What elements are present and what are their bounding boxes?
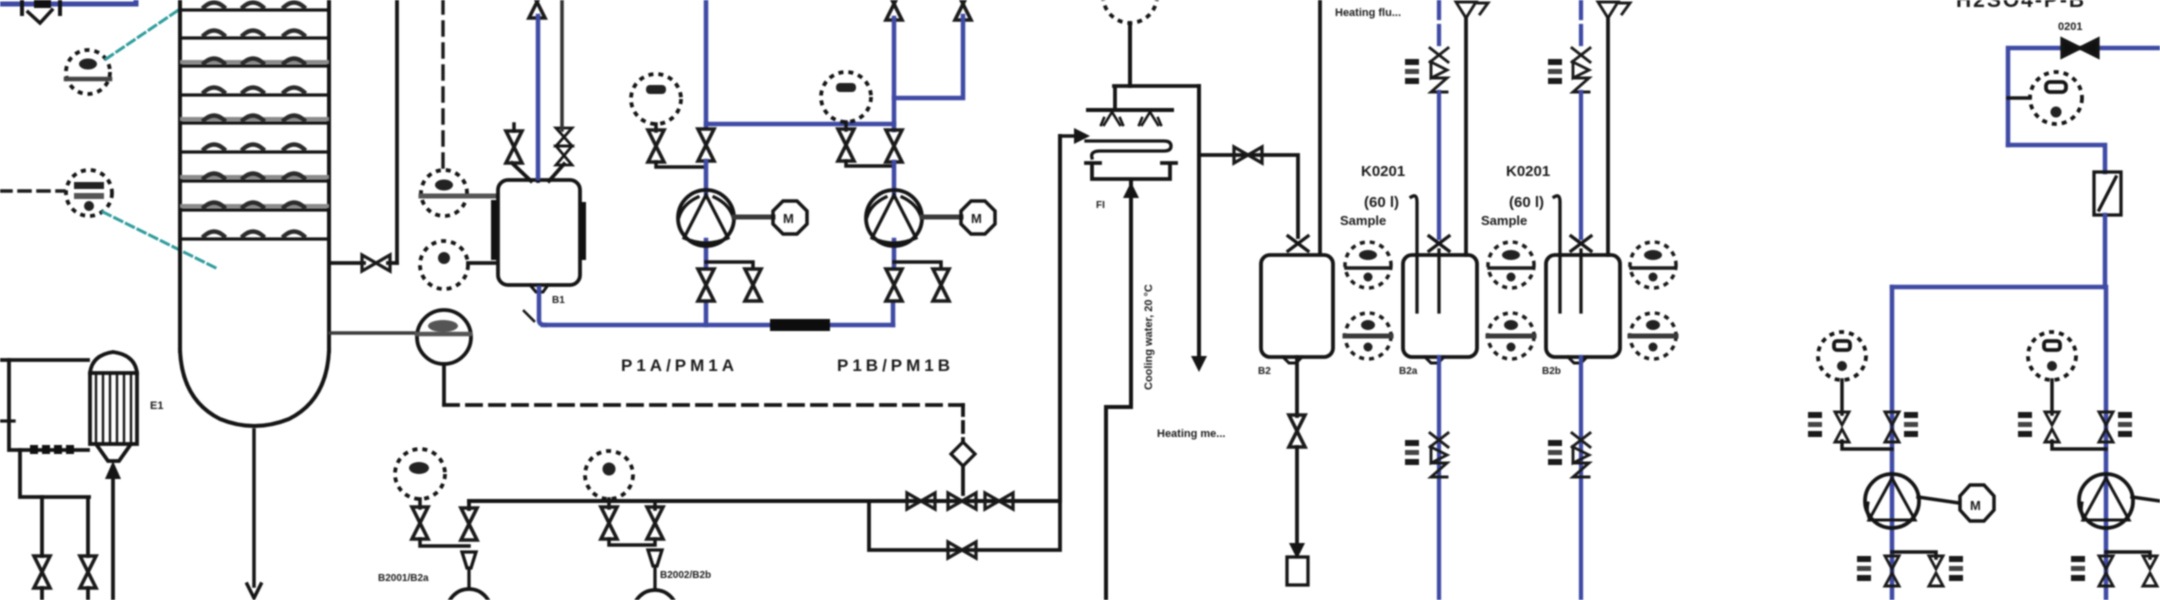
wire blue distribution header right: [1892, 285, 2105, 290]
tick at B1 outlet corner: [524, 311, 534, 321]
pump P1A: [678, 190, 734, 246]
arrow-cross into B2: [1288, 236, 1308, 251]
wire blue into pump P1A: [704, 161, 709, 268]
valve row on main line 3: [985, 493, 1013, 509]
valve under PI-5: [648, 130, 664, 162]
wire second drop stub: [653, 501, 657, 509]
agitator gauge A2: [1488, 242, 1534, 288]
tag left of PI-R2 valve: [2018, 412, 2032, 437]
svg-text:(60 l): (60 l): [1509, 194, 1544, 211]
agitator gauge B3g: [1630, 313, 1676, 359]
spray nozzle 1: [1101, 112, 1123, 125]
valve at top of blue line C: [955, 0, 971, 20]
svg-text:M: M: [971, 211, 982, 226]
svg-text:M: M: [783, 211, 794, 226]
valve on bypass: [948, 542, 976, 558]
wire blue B1 bottom outlet: [539, 288, 545, 325]
wire PI-R1 stem: [1840, 380, 1844, 414]
condenser W1 spray bar: [1088, 108, 1172, 112]
wire R2 motor shaft: [2132, 497, 2160, 501]
wire column side outlet: [330, 261, 397, 265]
svg-text:P1B/PM1B: P1B/PM1B: [837, 356, 954, 375]
wire PI-R2 stem: [2050, 380, 2054, 414]
agitator gauge B1g: [1345, 313, 1391, 359]
vessel B2a: [1403, 255, 1477, 363]
column C1 bottom outlet wire: [247, 430, 261, 598]
wire bypass loop: [869, 501, 1060, 550]
heat exchanger E1 shell: [90, 352, 137, 461]
instrument LIC-2: [66, 170, 112, 216]
diamond fitting: [951, 442, 975, 466]
wire P1B discharge tee: [894, 262, 941, 268]
wire P1A discharge tee: [706, 262, 753, 268]
tag left R2 discharge: [2071, 556, 2085, 581]
instrument TI-1: [66, 50, 110, 94]
wire diamond to water line: [961, 466, 965, 494]
wire heating line into B2b: [1606, 18, 1610, 255]
valve on B1 top nozzle 1: [506, 131, 522, 163]
column C1 bubble caps: [204, 3, 304, 237]
wire blue B2b feed: [1579, 92, 1583, 238]
arrow-cross into B2a: [1429, 236, 1449, 251]
wire E1 bottom outlet: [111, 476, 115, 600]
wire dashed signal down to PI-3: [441, 0, 444, 168]
wire blue B2b bottom: [1579, 357, 1583, 600]
vent at top of B2a heating line: [1456, 2, 1488, 18]
wire drain B: [86, 588, 90, 600]
valve on B2 outlet: [1289, 415, 1305, 447]
wire basin outlet down: [1106, 182, 1131, 600]
wire teal capillary to column lower: [103, 212, 216, 268]
wire heating line into B2a: [1464, 18, 1468, 255]
mini valve on R1 suction: [1885, 412, 1899, 442]
pump E ejector body: [417, 310, 471, 364]
wire R2 discharge tee: [2106, 552, 2150, 558]
wire pump E outlet: [442, 364, 446, 404]
wire blue feed line top-left: [0, 0, 136, 4]
dip tube 2 B2a: [1437, 250, 1440, 312]
spool marker on header: [770, 319, 830, 331]
mini valve R2 branch: [2143, 556, 2157, 586]
wire R1 motor shaft: [1918, 497, 1959, 503]
valve on drain A: [34, 556, 50, 588]
wire cooling water riser to condenser: [1058, 136, 1062, 501]
valve on B1 top nozzle 2 (double): [556, 128, 572, 165]
mini valve R1 branch: [1929, 556, 1943, 586]
wire blue P1B suction riser: [892, 18, 897, 130]
svg-text:Sample: Sample: [1340, 213, 1386, 228]
wire PI-6 stem: [844, 122, 848, 130]
svg-text:B2a: B2a: [1399, 366, 1418, 377]
tag left of PI-R1 valve: [1808, 412, 1822, 437]
valve under PI-7: [412, 507, 428, 539]
wire blue branch C: [894, 16, 963, 98]
wire main line left drop: [467, 501, 471, 509]
motor PM1A: [773, 201, 807, 234]
pump R1: [1865, 474, 1919, 528]
check valve on blue B2b feed: [1572, 48, 1590, 92]
wire drain A: [40, 497, 44, 600]
tag right of R1 suction valve: [1904, 412, 1918, 437]
wire cooling return with arrow: [1197, 86, 1201, 360]
wire blue crossover header: [706, 122, 894, 127]
valve on P1A suction: [698, 129, 714, 161]
instrument LI-4: [420, 241, 468, 289]
vessel B2: [1261, 255, 1333, 363]
svg-text:P1A/PM1A: P1A/PM1A: [621, 356, 738, 375]
wire PI-5 connector to suction: [656, 162, 706, 167]
valve under PI-8: [601, 507, 617, 539]
wire gray line into B1 nozzle 2: [560, 0, 564, 130]
svg-text:Heating me...: Heating me...: [1157, 428, 1225, 440]
wire PI-8 stem: [607, 499, 611, 508]
check valve on blue B2a feed: [1430, 48, 1448, 92]
agitator gauge B2g: [1488, 313, 1534, 359]
wire blue B2a feed: [1437, 92, 1441, 238]
svg-text:H2SO4-P-B: H2SO4-P-B: [1956, 0, 2086, 12]
valve on P1A discharge: [698, 269, 714, 301]
wire R1 discharge tee: [1892, 552, 1936, 558]
check valve on B2b bottom: [1572, 433, 1590, 477]
wire dashed blowdown header: [444, 403, 963, 407]
svg-text:0201: 0201: [2058, 21, 2082, 33]
wire blue to rotameter: [2008, 145, 2105, 172]
control valve V0 on top-left feed line: [22, 0, 60, 23]
wire PI-6 connector to suction: [846, 161, 894, 166]
spray nozzle 2: [1139, 112, 1161, 125]
wire PI-5 stem: [654, 124, 658, 131]
valve on P1B drain: [933, 269, 949, 301]
pump S1 top arc at bottom edge: [447, 589, 491, 600]
condenser W1 coil: [1086, 141, 1171, 158]
arrow-cross into B2b: [1571, 236, 1591, 251]
wire PI-8 connector: [609, 539, 655, 545]
wire dashed signal to LIC-2: [0, 189, 64, 193]
valve on drain B: [80, 556, 96, 588]
wire PI-R2 connector: [2052, 441, 2106, 449]
hatch marks on E1 drain line: [30, 445, 74, 454]
wire teal capillary to column top: [106, 9, 180, 59]
valve row on main line 1: [907, 493, 935, 509]
wire cooling water main: [469, 499, 1060, 503]
wire blue B2b feed upper dashed: [1579, 0, 1583, 48]
control valve body on second drop: [648, 550, 662, 588]
wire blue rotameter outlet: [2103, 215, 2108, 287]
wire TI-9 stem: [1128, 23, 1132, 86]
svg-text:(60 l): (60 l): [1364, 194, 1399, 211]
mini valve on PI-R1 stem: [1835, 412, 1849, 442]
instrument PI-8: [585, 451, 633, 499]
wire blue top right header: [2008, 48, 2160, 145]
svg-text:K0201: K0201: [1361, 163, 1405, 180]
tag right of R2 suction valve: [2118, 412, 2132, 437]
wire blue reflux line into B1: [536, 16, 541, 178]
valve on condensate line: [1234, 147, 1262, 163]
pump R2: [2079, 474, 2133, 528]
wire blue into pump P1B: [892, 162, 897, 268]
svg-text:E1: E1: [150, 400, 163, 412]
wire PI-R1 connector: [1842, 441, 1892, 449]
motor PM1B: [961, 201, 995, 234]
heat exchanger E1 bottom arrow: [105, 461, 121, 479]
wire E1 drain drop: [20, 450, 89, 556]
instrument TI-9 top: [1103, 0, 1157, 23]
pump P1B: [866, 190, 922, 246]
wire P1A motor shaft: [734, 215, 773, 220]
check valve on B2a bottom: [1430, 433, 1448, 477]
condenser W1 header: [1114, 86, 1198, 110]
wire LI-4 tap to vessel B1: [468, 261, 496, 265]
wire blue header risers to pump discharge valves: [706, 303, 893, 325]
svg-text:Heating flu...: Heating flu...: [1335, 7, 1401, 19]
valve on P1A drain: [745, 269, 761, 301]
valve row on main line 2: [948, 493, 976, 509]
mini valve R2 discharge: [2099, 556, 2113, 586]
instrument PI-6: [821, 72, 871, 122]
drain pot under B2: [1287, 557, 1308, 585]
valve under PI-6: [838, 129, 854, 161]
wire arrow into condenser coil: [1060, 134, 1078, 138]
control valve body on left drop: [462, 552, 476, 588]
agitator gauge A1: [1345, 242, 1391, 288]
valve on top right header: [2062, 39, 2098, 57]
valve on P1B discharge: [886, 269, 902, 301]
wire column to pump E: [330, 331, 417, 335]
svg-text:B2: B2: [1258, 366, 1271, 377]
wire dashed drop to diamond: [961, 405, 965, 442]
instrument PI-3: [421, 170, 467, 216]
svg-text:B2b: B2b: [1542, 366, 1561, 377]
wire B2 outlet lower: [1295, 447, 1299, 545]
rotameter FG: [2094, 172, 2121, 215]
arrow on B2 drain: [1289, 543, 1305, 559]
svg-text:M: M: [1970, 498, 1981, 513]
instrument PI-R1: [1818, 332, 1866, 380]
wire black drop into B2: [1318, 0, 1322, 254]
valve at top of blue line B: [886, 0, 902, 20]
motor MR1: [1960, 485, 1994, 521]
dip tube B2a: [1411, 196, 1417, 312]
wire B2 bottom outlet: [1295, 357, 1299, 416]
dip tube B2b: [1554, 196, 1560, 312]
svg-text:Sample: Sample: [1481, 213, 1527, 228]
mini valve R1 discharge: [1885, 556, 1899, 586]
instrument FI-10: [2030, 72, 2082, 124]
check valve tag B2b bottom: [1548, 440, 1562, 465]
check valve tag B2a inlet: [1405, 59, 1419, 84]
mini valve on R2 suction: [2099, 412, 2113, 442]
svg-text:K0201: K0201: [1506, 163, 1550, 180]
vessel B1: [491, 163, 586, 292]
mini valve on PI-R2 stem: [2045, 412, 2059, 442]
column C1 gray tray shading: [182, 62, 327, 206]
valve on second drop: [647, 507, 663, 539]
dip tube 2 B2b: [1579, 250, 1582, 312]
check valve tag B2a bottom: [1405, 440, 1419, 465]
condenser W1 basin: [1086, 163, 1176, 179]
wire blue drop to pump R2: [2104, 287, 2109, 600]
column C1 trays: [182, 10, 327, 239]
wire E1 left loop: [9, 360, 88, 450]
stub wire left edge: [0, 419, 14, 422]
svg-text:B1: B1: [552, 295, 565, 306]
wire P1B motor shaft: [922, 215, 961, 220]
instrument PI-5: [631, 74, 681, 124]
vent at top of B2b heating line: [1598, 2, 1630, 18]
wire blue pump suction header: [543, 323, 893, 328]
agitator gauge A3: [1630, 242, 1676, 288]
tag left R1 discharge: [1857, 556, 1871, 581]
wire riser to top: [395, 0, 399, 263]
vessel B2b: [1546, 255, 1620, 363]
wire blue pump P1A suction riser: [704, 0, 709, 127]
wire blue drop to pump R1: [1890, 287, 1895, 600]
check valve tag B2b inlet: [1548, 59, 1562, 84]
svg-text:Cooling water, 20 °C: Cooling water, 20 °C: [1143, 284, 1155, 390]
wire blue B2a bottom: [1437, 357, 1441, 600]
wire condensate to B2: [1199, 155, 1298, 237]
svg-text:FI: FI: [1096, 200, 1105, 211]
wire tap to FI-10: [2008, 96, 2030, 100]
valve on left drop: [461, 508, 477, 540]
valve on P1B suction: [886, 130, 902, 162]
valve at top of blue reflux line: [529, 0, 545, 18]
wire blue B2a feed upper dashed: [1437, 0, 1441, 48]
wire E1 top feed: [0, 358, 88, 362]
tag right R1 branch: [1949, 556, 1963, 581]
column C1 shell: [180, 0, 329, 426]
wire B1 nozzle 1 stub: [512, 124, 516, 131]
basin outlet arrow: [1123, 182, 1139, 198]
valve on column side outlet: [362, 255, 390, 271]
svg-text:B2002/B2b: B2002/B2b: [660, 570, 711, 581]
wire gray level tap to vessel B1: [421, 194, 495, 199]
wire PI-7 stem: [418, 499, 422, 508]
wire PI-7 connector: [420, 539, 469, 546]
instrument PI-R2: [2028, 332, 2076, 380]
pump S2 top arc at bottom edge: [633, 590, 677, 600]
svg-text:B2001/B2a: B2001/B2a: [378, 573, 429, 584]
instrument PI-7: [395, 449, 445, 499]
